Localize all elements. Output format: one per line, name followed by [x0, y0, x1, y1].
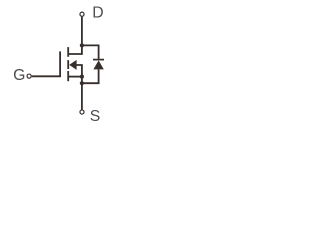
wire : diode branch from drain node right, down to diode cathode — [82, 45, 99, 59]
wire : gate lead from G terminal right, up as gate electrode — [32, 51, 60, 76]
wire : drain vertical from D terminal down, corner left to channel top bar — [68, 17, 82, 54]
wire : body line right from arrow, corner down to S terminal — [76, 65, 82, 110]
transistor Q1 body arrow (points left, N-channel) — [69, 60, 76, 70]
wire : source line from channel bottom bar to source node — [68, 76, 82, 78]
diode D1 cathode bar — [93, 59, 104, 61]
terminal circle S — [80, 110, 84, 114]
transistor Q1 channel middle bar (body contact) — [67, 60, 69, 69]
terminal circle D — [80, 12, 84, 16]
MOSFET schematic: N-channel with body diode — [0, 0, 158, 128]
transistor Q1 channel top bar (drain contact) — [67, 47, 69, 57]
transistor Q1 channel bottom bar (source contact) — [67, 71, 69, 81]
node : drain-diode junction dot — [80, 43, 84, 47]
wire : diode anode vertical down, return left to source node — [82, 69, 99, 83]
svg-text:G: G — [13, 67, 25, 84]
diode D1 triangle (anode below, pointing up) — [93, 60, 103, 69]
svg-text:D: D — [92, 5, 103, 22]
node : source-line junction dot — [80, 75, 84, 79]
svg-text:S: S — [90, 108, 101, 125]
terminal circle G — [27, 74, 31, 78]
node : diode-return junction dot — [80, 81, 84, 85]
